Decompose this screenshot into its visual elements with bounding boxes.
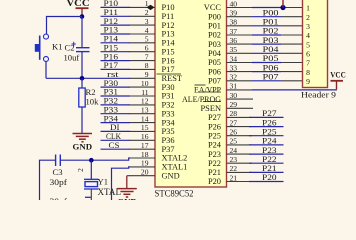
wire + net label CLK (pin 16) (101, 131, 131, 141)
wire VCC to button K1 (47, 17, 83, 35)
svg-text:P12: P12 (162, 21, 175, 30)
svg-text:P07: P07 (263, 72, 280, 82)
wire + net label P11 (pin 2) (101, 7, 131, 17)
svg-text:P22: P22 (208, 159, 221, 168)
svg-text:3: 3 (145, 17, 149, 26)
chip pin 1 (P10) (130, 0, 175, 12)
wire + net label P30 (pin 10) (101, 78, 131, 88)
wire + net label CS (pin 17) (101, 140, 131, 150)
svg-text:P27: P27 (208, 113, 221, 122)
svg-text:REST: REST (162, 74, 182, 83)
svg-text:VCC: VCC (330, 71, 346, 80)
svg-text:P30: P30 (162, 83, 175, 92)
chip pin 5 (P14) (130, 35, 176, 48)
svg-text:P07: P07 (208, 77, 221, 86)
svg-text:30pf: 30pf (50, 196, 68, 200)
svg-text:P25: P25 (208, 131, 221, 140)
wire chip pin 36 to header pin 5 / net label P03 (252, 35, 303, 45)
chip pin 22 (P21) (208, 164, 252, 177)
wire left rail (bottom) (40, 160, 56, 200)
svg-text:P10: P10 (162, 3, 175, 12)
svg-text:GND: GND (73, 142, 93, 152)
svg-text:GND: GND (117, 197, 137, 201)
chip pin 35 (P04) (208, 45, 252, 58)
svg-text:15: 15 (141, 123, 149, 132)
svg-text:8: 8 (306, 68, 310, 77)
chip pin 31 (EAVPP) (194, 82, 252, 95)
chip pin 30 (ALEPROG) (182, 91, 253, 104)
svg-text:EA/VPP: EA/VPP (194, 86, 221, 95)
svg-text:Header 9: Header 9 (301, 89, 337, 99)
wire + net label P16 (pin 7) (101, 51, 131, 61)
chip pin 20 (GND) (130, 168, 180, 181)
wire chip pin 38 to header pin 3 / net label P01 (252, 17, 303, 27)
chip pin 27 (P26) (208, 118, 252, 131)
svg-text:P11: P11 (162, 12, 175, 21)
svg-text:30: 30 (230, 91, 238, 100)
wire chip pin 34 to header pin 7 / net label P05 (252, 53, 303, 63)
svg-text:C2: C2 (65, 43, 75, 53)
svg-text:38: 38 (230, 18, 238, 27)
node rst junction (80, 76, 85, 81)
svg-text:rst: rst (107, 69, 119, 79)
svg-text:6: 6 (306, 50, 310, 59)
svg-text:XTAL1: XTAL1 (162, 163, 188, 172)
chip pin 26 (P25) (208, 128, 252, 141)
svg-text:P32: P32 (162, 101, 175, 110)
chip pin 38 (P01) (208, 18, 252, 31)
ground GND (R2) (73, 134, 93, 152)
svg-text:P15: P15 (162, 47, 175, 56)
svg-text:4: 4 (145, 26, 149, 35)
chip pin 34 (P05) (208, 54, 252, 67)
power VCC (top left) (67, 0, 90, 16)
svg-text:P37: P37 (162, 145, 175, 154)
svg-text:40: 40 (230, 0, 238, 8)
wire chip pin 37 to header pin 4 / net label P02 (252, 26, 303, 36)
wire C3 to XTAL2 pin 18 (60, 158, 130, 160)
svg-text:32: 32 (230, 73, 238, 82)
svg-text:P14: P14 (162, 39, 176, 48)
wire chip pin 40 to header pin 1 (252, 7, 303, 9)
svg-text:14: 14 (141, 114, 149, 123)
svg-text:VCC: VCC (204, 3, 222, 12)
svg-text:STC89C52: STC89C52 (155, 189, 194, 199)
svg-text:2: 2 (76, 168, 85, 172)
wire + net label P33 (pin 13) (101, 104, 131, 114)
wire chip pin 39 to header pin 2 / net label P00 (252, 7, 303, 17)
chip pin 6 (P15) (130, 44, 175, 57)
svg-text:39: 39 (230, 9, 238, 18)
svg-text:25: 25 (230, 137, 238, 146)
chip pin 9 (REST) (130, 70, 182, 83)
svg-text:C3: C3 (53, 167, 63, 177)
svg-text:2: 2 (306, 13, 310, 22)
chip pin 3 (P12) (130, 17, 175, 30)
wire + net label P15 (pin 6) (101, 42, 131, 52)
svg-text:P06: P06 (208, 67, 221, 76)
wire + net label P13 (pin 4) (101, 25, 131, 35)
capacitor C3 30pf (50, 155, 68, 188)
chip pin 12 (P32) (130, 97, 175, 110)
wire + net label P10 (pin 1) (101, 0, 131, 8)
svg-text:10uf: 10uf (64, 53, 80, 63)
chip pin 39 (P00) (208, 9, 252, 22)
svg-text:XTAL2: XTAL2 (162, 154, 188, 163)
svg-text:VCC: VCC (67, 0, 90, 8)
wire + net label P32 (pin 12) (101, 96, 131, 106)
chip pin 19 (XTAL1) (130, 159, 188, 172)
chip pin 28 (P27) (208, 109, 252, 122)
wire + net label P34 (pin 14) (101, 113, 131, 123)
svg-text:30pf: 30pf (50, 177, 68, 187)
wire + net label P21 (pin 22) (249, 163, 284, 173)
svg-text:P20: P20 (262, 172, 277, 182)
svg-text:P33: P33 (162, 109, 175, 118)
svg-text:P35: P35 (162, 127, 175, 136)
svg-text:CS: CS (109, 140, 120, 150)
chip pin 8 (P17) (130, 61, 175, 74)
chip pin 7 (P16) (130, 52, 175, 65)
svg-text:3: 3 (306, 22, 310, 31)
svg-text:19: 19 (141, 159, 149, 168)
svg-text:35: 35 (230, 45, 238, 54)
wire + net label P27 (pin 28) (249, 108, 284, 118)
svg-text:P24: P24 (208, 141, 222, 150)
svg-text:P00: P00 (208, 12, 221, 21)
svg-text:13: 13 (141, 106, 149, 115)
chip pin 25 (P24) (208, 137, 252, 150)
node crystal junction (89, 158, 94, 163)
chip pin 40 (VCC) (204, 0, 252, 12)
svg-text:P03: P03 (208, 40, 221, 49)
svg-text:21: 21 (230, 173, 238, 182)
wire + net label P26 (pin 27) (249, 117, 284, 127)
svg-text:P20: P20 (208, 177, 221, 186)
chip pin 2 (P11) (130, 8, 175, 21)
pin 1 marker diamond (147, 5, 155, 10)
chip pin 18 (XTAL2) (130, 150, 188, 163)
connector J1 Header 9 body (303, 0, 328, 88)
svg-text:17: 17 (141, 141, 149, 150)
svg-text:P26: P26 (208, 122, 221, 131)
chip pin 11 (P31) (130, 88, 175, 101)
wire XTAL1 pin 19 down (112, 167, 131, 200)
wire VCC rail up (cut) (282, 0, 284, 8)
svg-text:P04: P04 (208, 49, 222, 58)
svg-text:ALE/PROG: ALE/PROG (182, 95, 221, 104)
svg-text:6: 6 (145, 44, 149, 53)
svg-text:26: 26 (230, 128, 238, 137)
chip pin 24 (P23) (208, 146, 252, 159)
svg-text:7: 7 (145, 52, 149, 61)
svg-text:36: 36 (230, 36, 238, 45)
capacitor C4 plate (cut) (85, 196, 91, 198)
svg-text:5: 5 (145, 35, 149, 44)
svg-text:4: 4 (306, 31, 310, 40)
svg-text:P31: P31 (162, 92, 175, 101)
svg-text:P36: P36 (162, 136, 175, 145)
svg-text:11: 11 (141, 88, 149, 97)
chip pin 33 (P06) (208, 63, 252, 76)
wire + net label P25 (pin 26) (249, 126, 284, 136)
wire rst row (46, 77, 130, 79)
wire chip pin 33 to header pin 8 / net label P06 (252, 62, 303, 72)
chip pin 4 (P13) (130, 26, 175, 39)
svg-text:5: 5 (306, 40, 310, 49)
wire EA/VPP pin 31 to VCC (252, 89, 337, 91)
wire + net label P31 (pin 11) (101, 87, 131, 97)
svg-text:22: 22 (230, 164, 238, 173)
svg-text:8: 8 (145, 61, 149, 70)
svg-text:33: 33 (230, 63, 238, 72)
svg-text:P16: P16 (162, 56, 175, 65)
svg-text:PSEN: PSEN (201, 104, 221, 113)
svg-text:9: 9 (306, 77, 310, 86)
svg-text:28: 28 (230, 109, 238, 118)
svg-text:P23: P23 (208, 150, 221, 159)
svg-text:GND: GND (162, 171, 180, 180)
svg-text:10k: 10k (86, 96, 100, 106)
svg-text:P21: P21 (208, 168, 221, 177)
svg-text:1: 1 (306, 4, 310, 13)
wire + net label DI (pin 15) (101, 122, 131, 132)
svg-text:P13: P13 (162, 30, 175, 39)
svg-text:10: 10 (141, 79, 149, 88)
chip pin 29 (PSEN) (201, 100, 253, 113)
chip pin 16 (P36) (130, 132, 175, 145)
wire + net label P23 (pin 24) (249, 145, 284, 155)
wire button K1 to rst row (45, 61, 47, 78)
chip pin 21 (P20) (208, 173, 252, 186)
svg-text:P01: P01 (208, 22, 221, 31)
svg-text:24: 24 (230, 146, 238, 155)
resistor R2 10k (79, 78, 99, 133)
svg-text:20: 20 (141, 168, 149, 177)
power VCC (right) (330, 71, 346, 90)
chip pin 36 (P03) (208, 36, 252, 49)
svg-text:34: 34 (230, 54, 238, 63)
svg-text:P02: P02 (208, 31, 221, 40)
wire chip pin 32 to header pin 9 / net label P07 (252, 72, 303, 82)
svg-text:29: 29 (230, 100, 238, 109)
chip pin 23 (P22) (208, 155, 252, 168)
capacitor C2 10uf (64, 17, 90, 79)
wire + net label P22 (pin 23) (249, 154, 284, 164)
ground GND (pin 20) (117, 176, 137, 207)
node VCC junction (80, 14, 85, 19)
crystal Y1 (84, 160, 121, 200)
wire + net label P14 (pin 5) (101, 34, 131, 44)
chip pin 14 (P34) (130, 114, 176, 127)
wire + net label P20 (pin 21) (249, 172, 284, 182)
svg-text:K1: K1 (52, 41, 63, 51)
svg-text:16: 16 (141, 132, 149, 141)
svg-text:31: 31 (230, 82, 238, 91)
svg-text:37: 37 (230, 27, 238, 36)
svg-text:P17: P17 (162, 65, 175, 74)
svg-text:P05: P05 (208, 58, 221, 67)
wire + net label P24 (pin 25) (249, 136, 284, 146)
chip pin 10 (P30) (130, 79, 175, 92)
svg-text:P34: P34 (162, 118, 176, 127)
svg-text:7: 7 (306, 59, 310, 68)
chip pin 37 (P02) (208, 27, 252, 40)
svg-text:27: 27 (230, 118, 238, 127)
pushbutton K1 (35, 34, 63, 61)
chip pin 32 (P07) (208, 73, 252, 86)
wire + net label P12 (pin 3) (101, 16, 131, 26)
svg-text:Y1: Y1 (98, 177, 109, 187)
chip pin 15 (P35) (130, 123, 175, 136)
wire + net label P17 (pin 8) (101, 60, 131, 70)
svg-text:2: 2 (145, 8, 149, 17)
svg-text:12: 12 (141, 97, 149, 106)
IC U1 STC89C52 body (155, 0, 227, 187)
node VCC junction (top right) (280, 5, 285, 10)
svg-text:9: 9 (145, 70, 149, 79)
svg-text:23: 23 (230, 155, 238, 164)
chip pin 13 (P33) (130, 106, 175, 119)
wire chip pin 35 to header pin 6 / net label P04 (252, 44, 303, 54)
chip pin 17 (P37) (130, 141, 175, 154)
svg-text:18: 18 (141, 150, 149, 159)
